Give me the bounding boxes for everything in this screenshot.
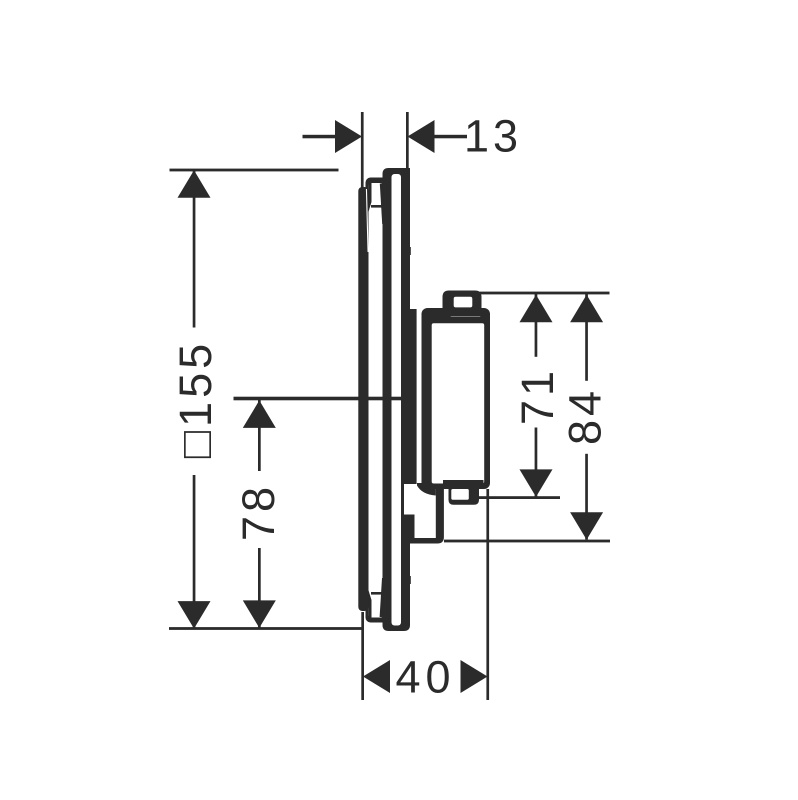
protrusion interior — [404, 484, 436, 538]
bump on C right edge — [409, 576, 411, 584]
dim 78: top arrowhead — [243, 400, 276, 428]
dim 78: line top segment — [258, 400, 261, 471]
plate B (rosette mid layer) — [366, 178, 392, 623]
dim 71: top arrowhead — [520, 295, 553, 323]
dim 71/84: top extension line — [480, 292, 610, 295]
svg-text:40: 40 — [395, 652, 455, 703]
protrusion left step — [401, 515, 415, 544]
dim 155: line bottom segment — [193, 475, 196, 629]
dim 13: left arrow tail — [303, 135, 337, 139]
dim 84: bottom arrowhead — [570, 512, 603, 540]
dim 71: line bottom segment — [535, 428, 538, 498]
protrusion inner fillet — [417, 483, 436, 496]
plate B interior — [368, 183, 382, 618]
dim 13: right arrow tail — [433, 135, 467, 139]
svg-text:78: 78 — [233, 483, 284, 541]
dim 155/78: bottom extension line — [169, 627, 362, 630]
tick in B top — [371, 205, 383, 208]
plate C interior — [392, 174, 402, 626]
svg-text:□155: □155 — [170, 340, 221, 458]
dim 78: bottom arrowhead — [243, 600, 276, 628]
dim 13: left extension line — [361, 112, 364, 188]
dim 78: top extension line — [234, 397, 416, 401]
dim 155: top extension line — [170, 169, 339, 172]
dim 13: right arrowhead — [408, 120, 435, 153]
plate C (back escutcheon, side view) — [383, 168, 411, 631]
svg-text:13: 13 — [464, 111, 522, 162]
handle interior — [432, 323, 485, 483]
chamfer diagonal top — [380, 184, 385, 225]
button on top — [443, 291, 482, 317]
dim 13: left arrowhead — [335, 120, 362, 153]
handle bottom inner line — [443, 480, 484, 484]
handle body — [422, 308, 491, 489]
dim 84: line bottom segment — [585, 454, 588, 540]
chamfer wedge top-left — [368, 182, 371, 212]
stem band between plate and handle — [401, 309, 417, 485]
dim 84: top arrowhead — [570, 295, 603, 323]
dim 71: bottom extension line — [479, 496, 560, 499]
lower protrusion body — [401, 484, 444, 544]
dim 40: right arrowhead — [461, 660, 488, 693]
tick in B bottom — [371, 592, 382, 595]
svg-text:84: 84 — [560, 387, 611, 445]
dim 155: bottom arrowhead — [178, 601, 211, 629]
tab interior — [451, 489, 469, 500]
dim 155: line top segment — [193, 170, 196, 328]
dim 78: line bottom segment — [258, 548, 261, 628]
dim 40: right extension line — [486, 489, 489, 700]
dim 71: line top segment — [535, 294, 538, 357]
svg-text:71: 71 — [512, 367, 563, 425]
bottom tab — [449, 487, 480, 505]
dim 155: top arrowhead — [178, 170, 211, 198]
dim 40: left arrowhead — [363, 660, 390, 693]
chamfer wedge bottom-left — [368, 590, 371, 618]
bump on C right edge upper — [409, 247, 411, 255]
front face top sliver — [366, 189, 369, 252]
chamfer diagonal bottom — [380, 578, 385, 617]
dim 71: bottom arrowhead — [520, 469, 553, 497]
button interior — [454, 297, 473, 308]
dim 40: left extension line — [361, 612, 364, 700]
dim 84: bottom extension line — [444, 540, 610, 543]
dim 84: line top segment — [585, 294, 588, 381]
dim 13: right extension line — [406, 112, 409, 169]
handle cap white slit — [450, 313, 481, 316]
rosette front face A — [358, 187, 368, 611]
